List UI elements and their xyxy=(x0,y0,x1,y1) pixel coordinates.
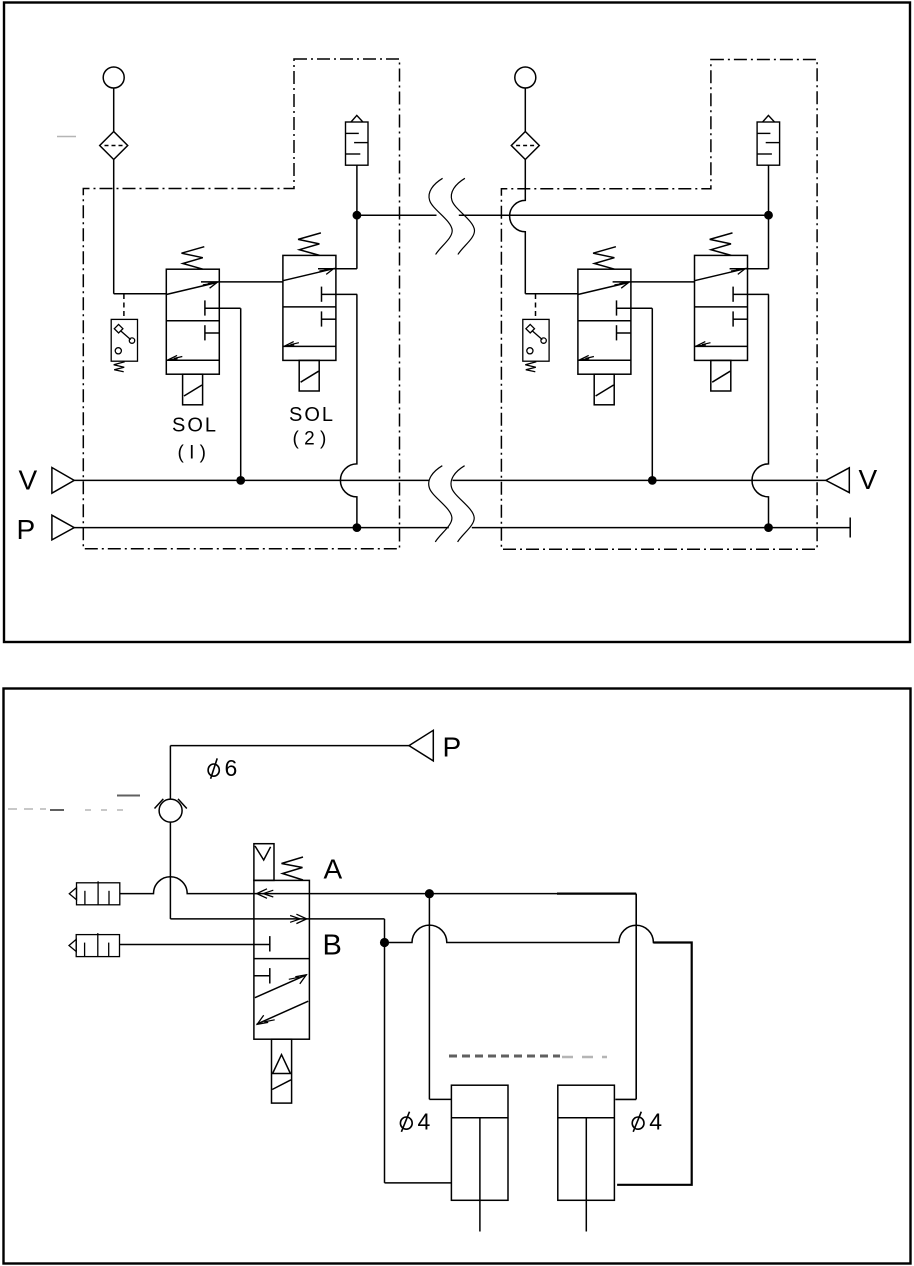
svg-text:P: P xyxy=(17,514,36,545)
B line xyxy=(309,918,384,920)
P port left xyxy=(52,515,74,540)
cylinder 2 xyxy=(558,1085,615,1231)
svg-text:SOL: SOL xyxy=(289,404,335,426)
wire muffler B to valve xyxy=(120,944,254,946)
unit2 enclosure dash-dot xyxy=(501,60,817,550)
bottom panel frame xyxy=(4,689,911,1264)
check valve xyxy=(159,799,182,822)
svg-text:4: 4 xyxy=(649,1109,662,1135)
svg-text:6: 6 xyxy=(225,755,238,781)
P end plug xyxy=(849,518,851,538)
right cylinder head drop xyxy=(635,894,637,1100)
V port right xyxy=(826,468,849,493)
P to B flow line xyxy=(254,918,310,920)
cylinder 1 xyxy=(451,1085,508,1231)
cell2 blocked port xyxy=(254,975,270,977)
left branch to rod ends xyxy=(384,943,386,1183)
B manifold with hops xyxy=(385,925,659,942)
break bottom xyxy=(429,466,452,542)
diameter labels xyxy=(208,758,644,1131)
left cylinder head drop xyxy=(428,894,430,1100)
labels bottom panel xyxy=(323,732,462,962)
svg-text:V: V xyxy=(19,465,38,496)
P supply wire xyxy=(170,745,409,747)
svg-text:A: A xyxy=(324,854,343,885)
wire muffler A to valve with hop xyxy=(120,877,254,894)
P line xyxy=(74,527,449,529)
V line xyxy=(74,479,429,481)
svg-text:SOL: SOL xyxy=(172,415,218,437)
manual button xyxy=(254,844,274,881)
return spring xyxy=(282,857,304,880)
wire down to valve feed xyxy=(169,822,171,919)
blocked port xyxy=(254,944,270,946)
svg-text:P: P xyxy=(443,732,462,763)
A flow line xyxy=(254,893,310,895)
P port xyxy=(409,730,433,761)
svg-text:( 2 ): ( 2 ) xyxy=(293,429,327,450)
manifold unit 2 xyxy=(511,67,779,532)
V port left xyxy=(52,468,74,494)
A line to cylinders xyxy=(309,893,557,895)
svg-text:V: V xyxy=(859,464,878,495)
break top xyxy=(429,178,452,254)
muffler B xyxy=(69,933,120,957)
manifold unit 1 xyxy=(100,67,368,532)
svg-text:B: B xyxy=(323,930,342,962)
svg-text:4: 4 xyxy=(418,1109,431,1135)
pilot + solenoid actuator xyxy=(272,1039,292,1103)
svg-text:( I ): ( I ) xyxy=(178,443,207,464)
top panel frame xyxy=(4,3,910,643)
cell2 cross flows xyxy=(255,975,307,998)
unit2 filter drop wire with hop over pilot bus xyxy=(510,160,526,294)
muffler A xyxy=(69,881,120,905)
pilot bus wire xyxy=(357,214,437,216)
main valve body xyxy=(254,880,310,1039)
scan artifacts xyxy=(8,137,607,1058)
labels top panel xyxy=(17,464,878,545)
unit1 filter drop wire xyxy=(113,160,115,294)
unit1 enclosure dash-dot xyxy=(83,59,399,549)
